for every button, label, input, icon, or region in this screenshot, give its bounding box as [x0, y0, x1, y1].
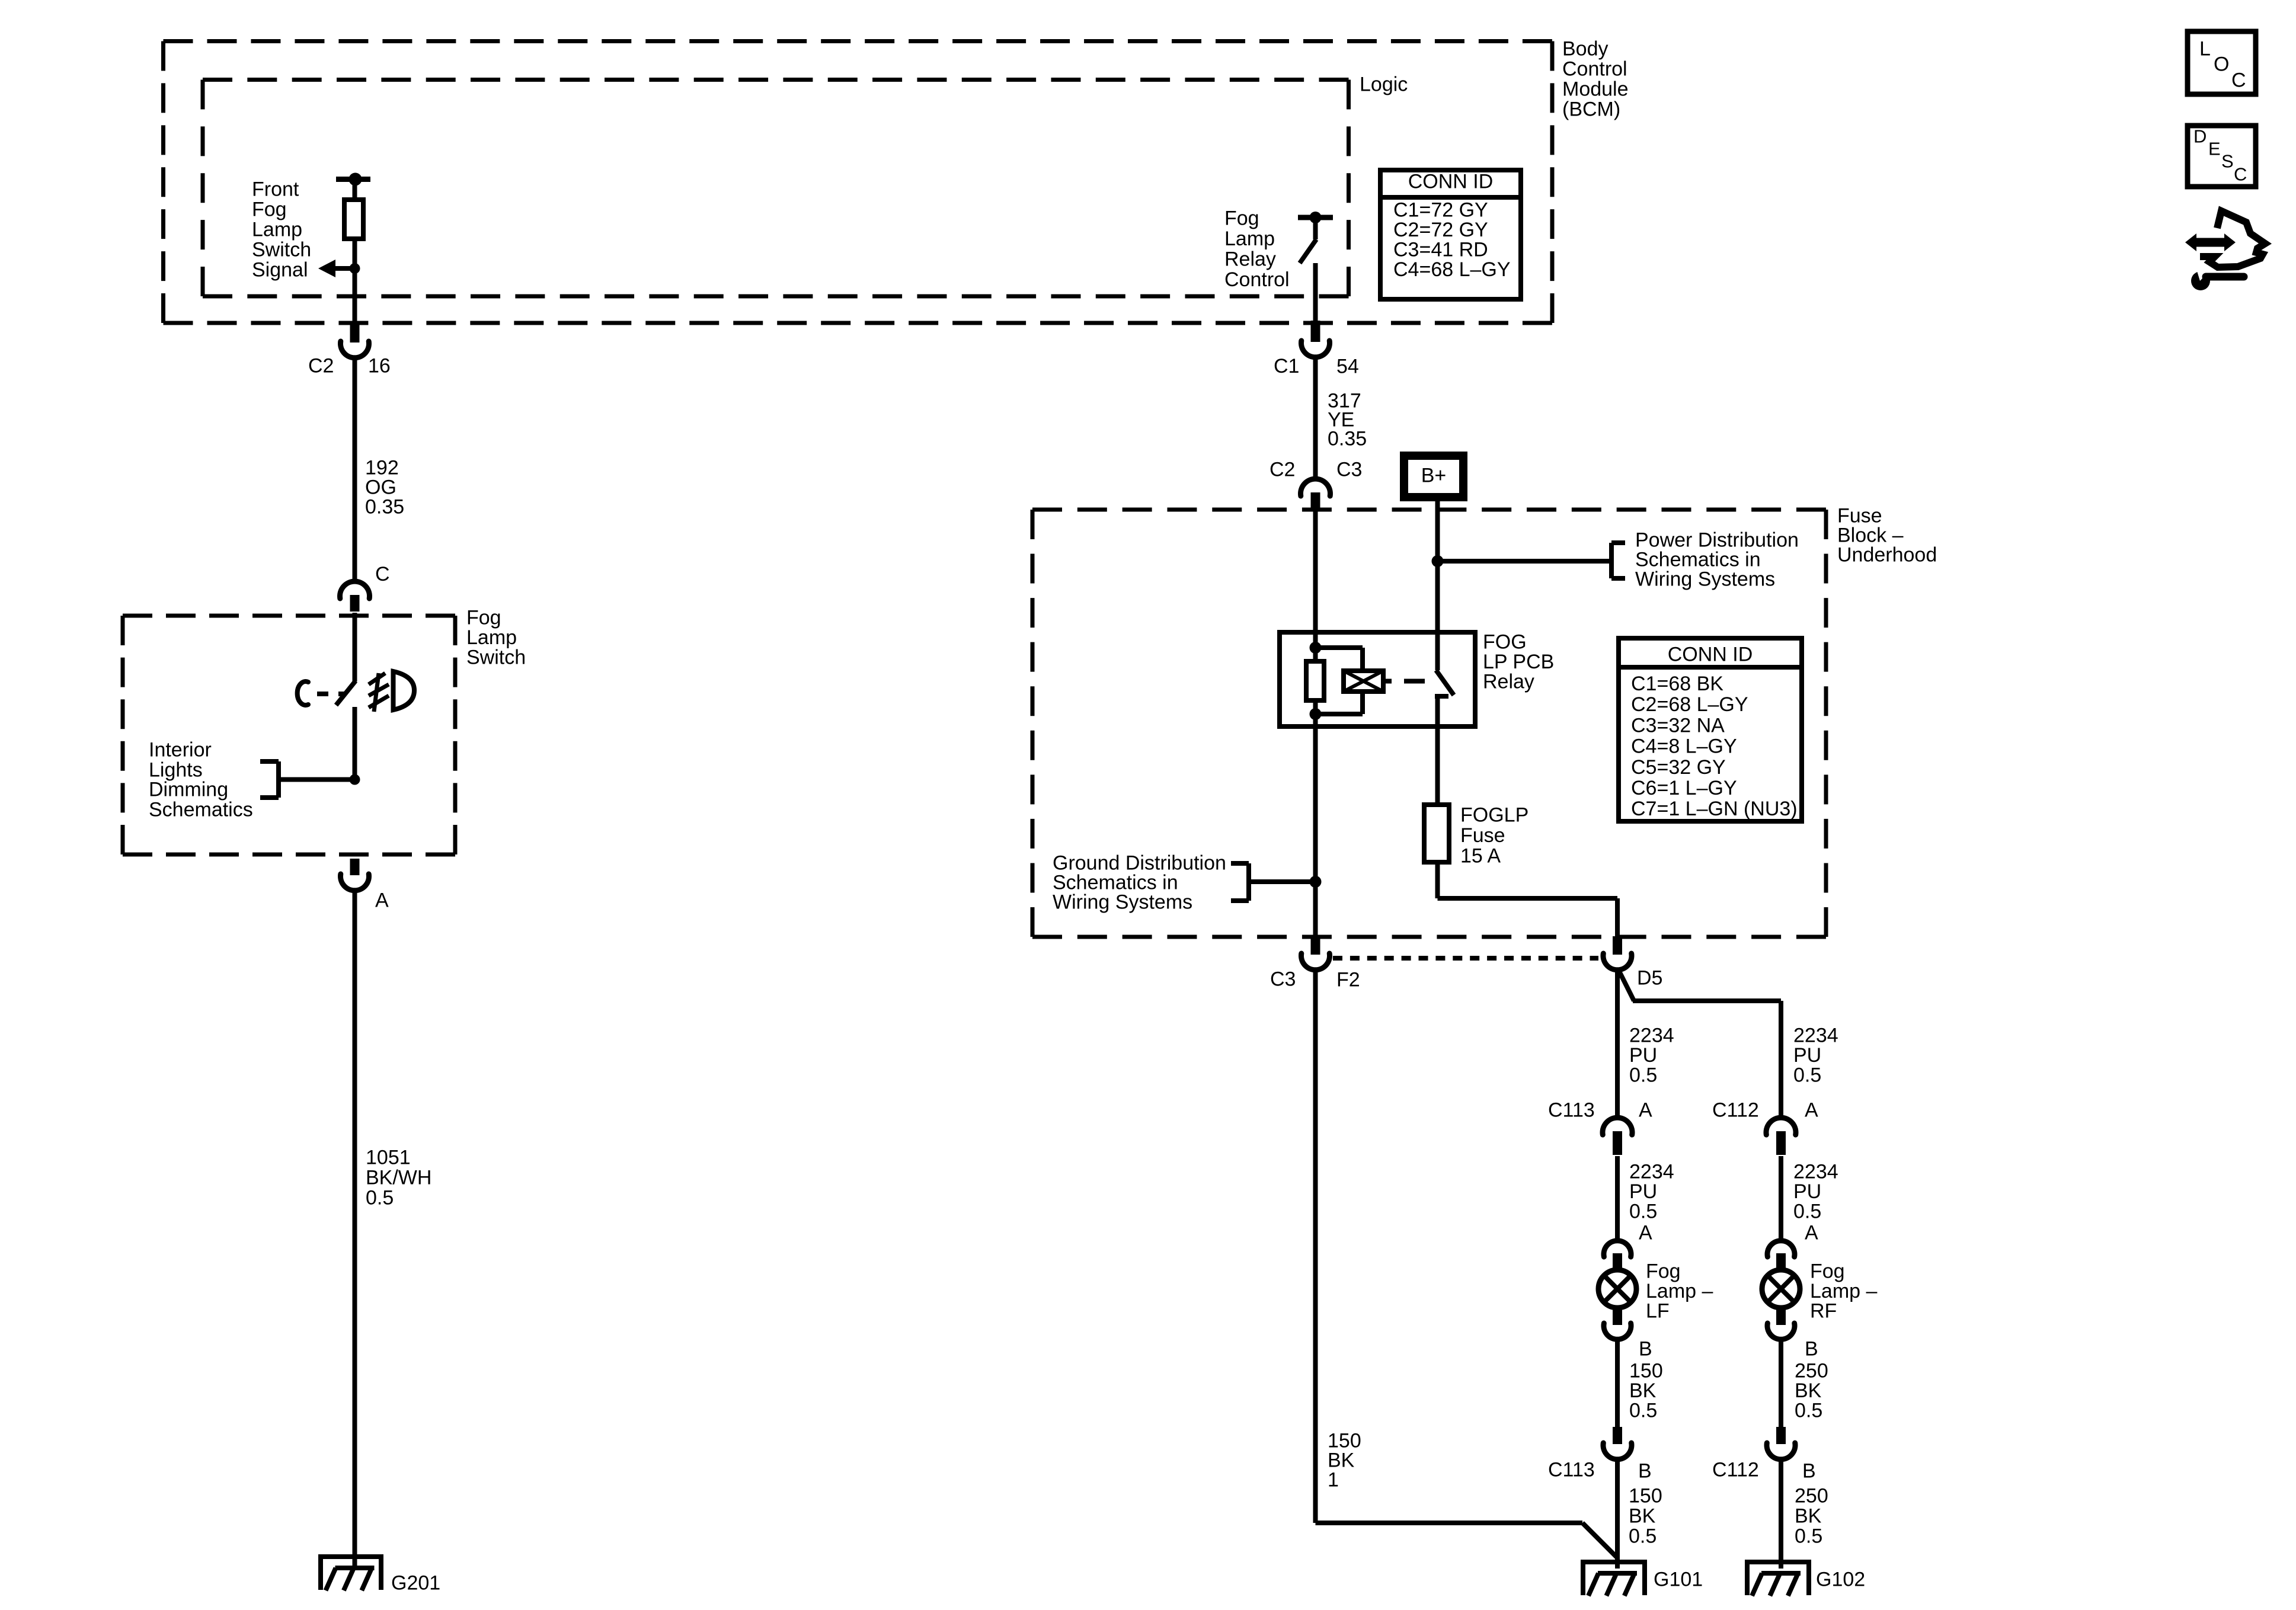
svg-text:Front: Front: [252, 178, 299, 201]
svg-text:0.5: 0.5: [366, 1187, 394, 1209]
svg-text:0.5: 0.5: [1629, 1399, 1657, 1422]
svg-text:Lamp –: Lamp –: [1810, 1280, 1877, 1302]
svg-text:Fog: Fog: [252, 199, 287, 221]
svg-text:A: A: [1639, 1099, 1652, 1122]
svg-text:C: C: [2231, 69, 2246, 92]
svg-text:Fuse: Fuse: [1460, 824, 1505, 847]
svg-text:Wiring Systems: Wiring Systems: [1053, 891, 1192, 914]
svg-text:C6=1 L–GY: C6=1 L–GY: [1631, 777, 1737, 799]
svg-text:PU: PU: [1629, 1180, 1657, 1203]
svg-text:PU: PU: [1629, 1044, 1657, 1067]
svg-text:CONN ID: CONN ID: [1408, 171, 1494, 193]
svg-text:C2: C2: [308, 355, 334, 377]
svg-text:Interior: Interior: [149, 739, 212, 761]
svg-text:C2=68 L–GY: C2=68 L–GY: [1631, 693, 1748, 716]
svg-text:G101: G101: [1654, 1569, 1703, 1591]
svg-text:C112: C112: [1712, 1099, 1759, 1122]
svg-text:Switch: Switch: [466, 646, 526, 669]
svg-text:B: B: [1639, 1338, 1652, 1361]
svg-text:LP PCB: LP PCB: [1483, 651, 1554, 673]
svg-text:Fog: Fog: [466, 607, 501, 629]
svg-text:PU: PU: [1793, 1044, 1821, 1067]
svg-text:A: A: [1805, 1099, 1818, 1122]
svg-text:C113: C113: [1548, 1459, 1595, 1481]
svg-text:BK/WH: BK/WH: [366, 1167, 431, 1189]
svg-text:BK: BK: [1795, 1505, 1822, 1528]
svg-text:Logic: Logic: [1360, 73, 1408, 96]
svg-text:S: S: [2221, 151, 2234, 171]
svg-text:1051: 1051: [366, 1147, 411, 1169]
svg-text:G102: G102: [1816, 1569, 1865, 1591]
svg-text:Control: Control: [1224, 268, 1290, 291]
svg-text:1: 1: [1328, 1469, 1339, 1491]
svg-text:Relay: Relay: [1483, 671, 1534, 693]
svg-text:Switch: Switch: [252, 239, 311, 261]
svg-text:Lamp: Lamp: [466, 626, 517, 649]
svg-text:(BCM): (BCM): [1562, 98, 1620, 121]
svg-text:150: 150: [1629, 1360, 1663, 1382]
svg-text:C3: C3: [1270, 968, 1296, 991]
svg-text:0.5: 0.5: [1629, 1525, 1657, 1548]
svg-text:FOGLP: FOGLP: [1460, 804, 1528, 827]
svg-text:C5=32 GY: C5=32 GY: [1631, 756, 1726, 779]
svg-text:C: C: [375, 563, 390, 585]
svg-text:B+: B+: [1421, 465, 1447, 487]
svg-text:D: D: [2193, 126, 2207, 146]
svg-text:BK: BK: [1629, 1505, 1656, 1528]
svg-text:F2: F2: [1336, 969, 1360, 991]
svg-text:0.5: 0.5: [1795, 1399, 1822, 1422]
svg-text:C1: C1: [1274, 355, 1299, 377]
svg-text:Underhood: Underhood: [1837, 544, 1937, 566]
svg-text:B: B: [1802, 1460, 1816, 1483]
svg-text:C3: C3: [1336, 459, 1362, 481]
svg-text:Wiring Systems: Wiring Systems: [1635, 568, 1775, 591]
svg-text:C1=72 GY: C1=72 GY: [1393, 199, 1488, 222]
svg-text:0.5: 0.5: [1793, 1200, 1821, 1222]
svg-text:Signal: Signal: [252, 259, 308, 281]
svg-text:Body: Body: [1562, 38, 1609, 60]
svg-text:Schematics: Schematics: [149, 799, 253, 821]
svg-text:BK: BK: [1629, 1379, 1657, 1402]
svg-text:RF: RF: [1810, 1299, 1837, 1322]
svg-text:A: A: [1805, 1222, 1818, 1244]
svg-text:G201: G201: [391, 1572, 440, 1595]
svg-text:LF: LF: [1646, 1299, 1670, 1322]
svg-text:Module: Module: [1562, 78, 1629, 101]
svg-text:C: C: [2234, 164, 2247, 184]
svg-text:15 A: 15 A: [1460, 845, 1501, 868]
svg-text:2234: 2234: [1793, 1025, 1838, 1047]
svg-text:Fog: Fog: [1810, 1260, 1845, 1283]
svg-text:0.35: 0.35: [1328, 428, 1367, 450]
svg-text:A: A: [1639, 1222, 1652, 1244]
svg-text:0.5: 0.5: [1629, 1200, 1657, 1222]
svg-text:C3=32 NA: C3=32 NA: [1631, 714, 1725, 737]
svg-text:16: 16: [368, 355, 391, 377]
svg-text:0.5: 0.5: [1793, 1064, 1821, 1086]
svg-text:C4=68 L–GY: C4=68 L–GY: [1393, 258, 1511, 281]
svg-text:C4=8 L–GY: C4=8 L–GY: [1631, 735, 1737, 758]
svg-text:CONN ID: CONN ID: [1668, 644, 1753, 666]
svg-text:PU: PU: [1793, 1180, 1821, 1203]
svg-text:C3=41 RD: C3=41 RD: [1393, 239, 1488, 261]
svg-text:C1=68 BK: C1=68 BK: [1631, 673, 1723, 695]
svg-text:E: E: [2208, 138, 2221, 159]
svg-text:FOG: FOG: [1483, 631, 1527, 654]
svg-text:150: 150: [1629, 1485, 1662, 1507]
svg-text:Control: Control: [1562, 58, 1627, 81]
svg-text:C112: C112: [1712, 1459, 1759, 1481]
svg-text:Dimming: Dimming: [149, 779, 228, 801]
svg-text:2234: 2234: [1629, 1025, 1674, 1047]
svg-text:Fog: Fog: [1646, 1260, 1681, 1283]
svg-text:B: B: [1638, 1460, 1652, 1483]
svg-text:C7=1 L–GN (NU3): C7=1 L–GN (NU3): [1631, 798, 1798, 820]
svg-text:Relay: Relay: [1224, 248, 1276, 271]
svg-text:0.5: 0.5: [1795, 1525, 1822, 1548]
svg-text:250: 250: [1795, 1360, 1828, 1382]
svg-text:D5: D5: [1637, 967, 1662, 990]
svg-text:C2: C2: [1269, 459, 1295, 481]
svg-text:B: B: [1805, 1338, 1818, 1361]
svg-text:L: L: [2199, 38, 2211, 60]
svg-text:2234: 2234: [1629, 1161, 1674, 1183]
svg-text:Fog: Fog: [1224, 207, 1259, 230]
svg-text:54: 54: [1336, 356, 1359, 378]
svg-text:2234: 2234: [1793, 1161, 1838, 1183]
svg-text:BK: BK: [1795, 1379, 1822, 1402]
svg-text:O: O: [2214, 53, 2229, 76]
svg-text:Lamp: Lamp: [252, 219, 302, 241]
svg-text:C2=72 GY: C2=72 GY: [1393, 219, 1488, 241]
svg-text:Lamp: Lamp: [1224, 228, 1275, 250]
svg-text:0.5: 0.5: [1629, 1064, 1657, 1086]
svg-text:250: 250: [1795, 1485, 1828, 1507]
svg-text:Lamp –: Lamp –: [1646, 1280, 1713, 1302]
svg-text:0.35: 0.35: [365, 496, 404, 518]
svg-text:A: A: [375, 889, 389, 912]
svg-text:C113: C113: [1548, 1099, 1595, 1122]
